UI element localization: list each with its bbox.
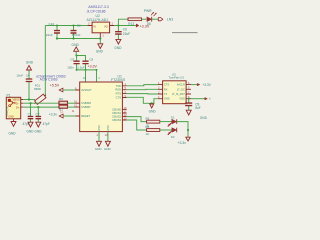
svg-text:R13: R13: [128, 22, 134, 26]
label +3.3V at U3 VDD: [205, 97, 218, 101]
svg-text:+3.3v: +3.3v: [49, 113, 58, 117]
bottom pin stubs: [99, 132, 108, 141]
graphic line: [172, 32, 198, 34]
svg-text:GND: GND: [8, 115, 14, 118]
svg-text:R5: R5: [146, 125, 150, 129]
wire CBUS2 to R5: [127, 120, 147, 130]
ground below C2: [34, 122, 42, 133]
svg-text:10uF: 10uF: [16, 73, 23, 77]
svg-text:+3.3v: +3.3v: [178, 141, 187, 145]
svg-text:VO: VO: [104, 25, 108, 29]
resistor R13: [128, 18, 142, 26]
svg-text:C8: C8: [89, 57, 93, 61]
wire CBUS1 to R4: [127, 117, 147, 122]
svg-text:C1: C1: [28, 113, 32, 117]
junction GND tap: [151, 102, 153, 104]
resistor R7: [59, 105, 76, 111]
svg-text:C3: C3: [77, 24, 81, 28]
wire CTS to GND junction: [127, 97, 158, 103]
svg-text:1.2uF: 1.2uF: [77, 65, 85, 69]
wire VCC drop to U1: [85, 70, 87, 82]
svg-text:GND: GND: [164, 97, 170, 101]
svg-text:VDD: VDD: [179, 97, 185, 101]
junction C4 on VBUS wire: [28, 98, 30, 100]
svg-text:R3: R3: [146, 116, 150, 120]
svg-text:ACW C1063: ACW C1063: [40, 78, 58, 82]
capacitor C3: [71, 24, 81, 39]
resistor R4: [146, 116, 160, 127]
LED D2: [168, 115, 177, 126]
ground flag above decoupling caps: [72, 43, 80, 56]
wire LED rail down: [187, 130, 189, 137]
capacitor C8: [77, 57, 93, 70]
label +3.3V output: [136, 24, 150, 29]
svg-text:470nF: 470nF: [72, 33, 81, 37]
svg-text:+3.3V: +3.3V: [202, 83, 211, 87]
capacitor C10: [46, 22, 60, 39]
capacitor C4: [16, 70, 32, 100]
ground below U1 right: [104, 141, 112, 151]
svg-text:CBUS2: CBUS2: [112, 115, 121, 119]
svg-text:VBUS: VBUS: [13, 98, 20, 102]
svg-text:+3.3V: +3.3V: [88, 64, 98, 68]
svg-text:LN3: LN3: [167, 17, 173, 21]
wire R4 to LED D2: [160, 121, 172, 123]
svg-text:GND: GND: [107, 125, 110, 131]
wire VCCIO drop to U1: [96, 70, 98, 82]
LED D6 PWR: [144, 9, 157, 26]
svg-text:C2: C2: [36, 113, 40, 117]
svg-text:GND: GND: [114, 46, 122, 50]
fuse F1: [23, 84, 47, 106]
ground below C1: [26, 122, 34, 133]
resistor R5: [146, 125, 160, 136]
svg-text:8uF: 8uF: [195, 106, 201, 110]
svg-text:100n: 100n: [67, 65, 74, 69]
svg-text:USBDM: USBDM: [81, 101, 91, 105]
svg-text:TwoPair-2.0: TwoPair-2.0: [169, 76, 185, 80]
wire branch up to LED row: [118, 19, 128, 25]
svg-text:GND: GND: [149, 110, 157, 114]
wire USB D+ to R7: [23, 106, 59, 108]
wire LED D2 to +3.3v rail: [177, 122, 188, 130]
right pin stubs: [122, 86, 126, 120]
label +3.3V at U3 pin6: [191, 83, 212, 87]
svg-text:GND: GND: [95, 147, 103, 150]
svg-text:C5: C5: [70, 57, 74, 61]
USB connector P1: [5, 93, 23, 121]
svg-text:/MCLR: /MCLR: [177, 83, 185, 87]
LED D3: [168, 128, 177, 139]
svg-text:D-: D-: [16, 101, 19, 105]
svg-text:3V3OUT: 3V3OUT: [81, 88, 92, 92]
svg-text:+3.3V: +3.3V: [209, 97, 211, 101]
wire regulator output: [114, 25, 136, 27]
wire decoupling bottom rail +3.3V: [77, 69, 97, 71]
svg-text:D2: D2: [171, 135, 175, 139]
svg-text:GND: GND: [72, 43, 80, 47]
left pin stubs: [76, 90, 80, 116]
junction VDD cap tap: [188, 98, 190, 100]
wire VBUS input rail vertical: [44, 26, 46, 97]
svg-text:C10: C10: [49, 22, 55, 26]
power +3.3v below LEDs: [178, 137, 191, 145]
svg-text:R6: R6: [59, 97, 63, 101]
svg-text:TXD: TXD: [116, 84, 121, 88]
svg-text:LT_M_RST: LT_M_RST: [172, 92, 185, 96]
svg-text:FT230XS: FT230XS: [111, 78, 126, 82]
svg-text:PWR: PWR: [144, 9, 152, 13]
capacitor C2: [36, 107, 50, 126]
ground below C9: [186, 110, 207, 120]
svg-text:RX: RX: [164, 87, 168, 91]
wire input caps bottom rail: [57, 38, 100, 40]
svg-text:GND: GND: [96, 49, 104, 53]
capacitor C6: [115, 26, 130, 40]
svg-text:C4: C4: [26, 73, 30, 77]
junction input rail: [56, 24, 75, 39]
svg-text:D6: D6: [147, 22, 151, 26]
svg-text:RXD: RXD: [115, 88, 121, 92]
svg-text:CTS: CTS: [116, 96, 122, 100]
svg-text:47pF: 47pF: [43, 122, 50, 126]
svg-text:D+: D+: [16, 105, 20, 109]
svg-text:22uF: 22uF: [123, 32, 130, 36]
svg-text:GND: GND: [9, 131, 17, 135]
wire R13 to LED: [142, 18, 147, 20]
svg-text:CBUS0: CBUS0: [112, 108, 121, 112]
wire R5 to LED D3: [160, 129, 172, 131]
svg-text:USBDP: USBDP: [81, 105, 90, 109]
junction D- cap tap: [29, 102, 31, 104]
svg-text:CBUS3: CBUS3: [112, 118, 121, 122]
svg-text:RESET: RESET: [81, 114, 90, 118]
wire RTS to U3: [127, 93, 158, 95]
capacitor C9: [185, 99, 201, 111]
junction decoupling rail: [75, 55, 97, 71]
connector U3: [158, 72, 191, 103]
svg-text:1K: 1K: [146, 132, 150, 136]
resistor R6: [59, 97, 76, 104]
pin names: [81, 84, 121, 122]
svg-text:GND: GND: [104, 147, 112, 150]
ground below U1 left: [95, 141, 103, 151]
wire LED to label: [152, 18, 158, 20]
svg-text:GND: GND: [98, 125, 101, 131]
svg-text:CBUS1: CBUS1: [112, 111, 121, 115]
capacitor C1: [23, 103, 34, 126]
svg-text:0608: 0608: [34, 87, 41, 91]
wire main input horizontal to regulator: [45, 25, 87, 27]
wire TXD to U3: [127, 85, 158, 86]
svg-text:+5.5V: +5.5V: [50, 84, 60, 88]
wire U3 VDD: [191, 98, 205, 100]
svg-text:VI: VI: [93, 25, 96, 29]
svg-text:GND: GND: [200, 116, 208, 120]
ground at U3 left: [149, 104, 157, 114]
svg-text:CTS: CTS: [164, 83, 169, 87]
svg-text:D1: D1: [171, 115, 175, 119]
svg-text:RTS: RTS: [116, 92, 122, 96]
svg-text:JLC# C6186: JLC# C6186: [87, 9, 106, 13]
svg-text:AZ1117H-ADJ: AZ1117H-ADJ: [87, 18, 109, 22]
wire decoupling top rail: [77, 56, 86, 61]
label LN3: [158, 17, 173, 21]
junction D+ cap tap: [37, 106, 39, 108]
ground below C6: [114, 39, 122, 50]
label +3.3v on RESET: [49, 109, 76, 118]
ground below USB: [9, 122, 17, 136]
svg-text:GND: GND: [26, 129, 34, 133]
ground below regulator: [96, 39, 104, 54]
wire USB D- to R6: [23, 102, 59, 104]
ground flag above C4: [26, 60, 34, 70]
junction regulator GND on rail: [99, 37, 101, 39]
svg-text:GND: GND: [26, 60, 34, 64]
junction LED rail: [187, 129, 189, 131]
svg-text:22uF: 22uF: [46, 33, 53, 37]
junction output: [117, 24, 119, 26]
capacitor C5: [67, 56, 80, 70]
label +3.3V on 3V3OUT: [50, 84, 76, 92]
regulator U2 AZ1117H-ADJ: [87, 5, 115, 38]
wire RXD to U3: [127, 88, 158, 90]
svg-text:GND: GND: [34, 129, 42, 133]
svg-text:LT_DC: LT_DC: [177, 87, 185, 91]
pin numbers: [74, 82, 127, 137]
IC U1 FT230XS: [74, 74, 127, 141]
svg-text:TX: TX: [164, 92, 168, 96]
